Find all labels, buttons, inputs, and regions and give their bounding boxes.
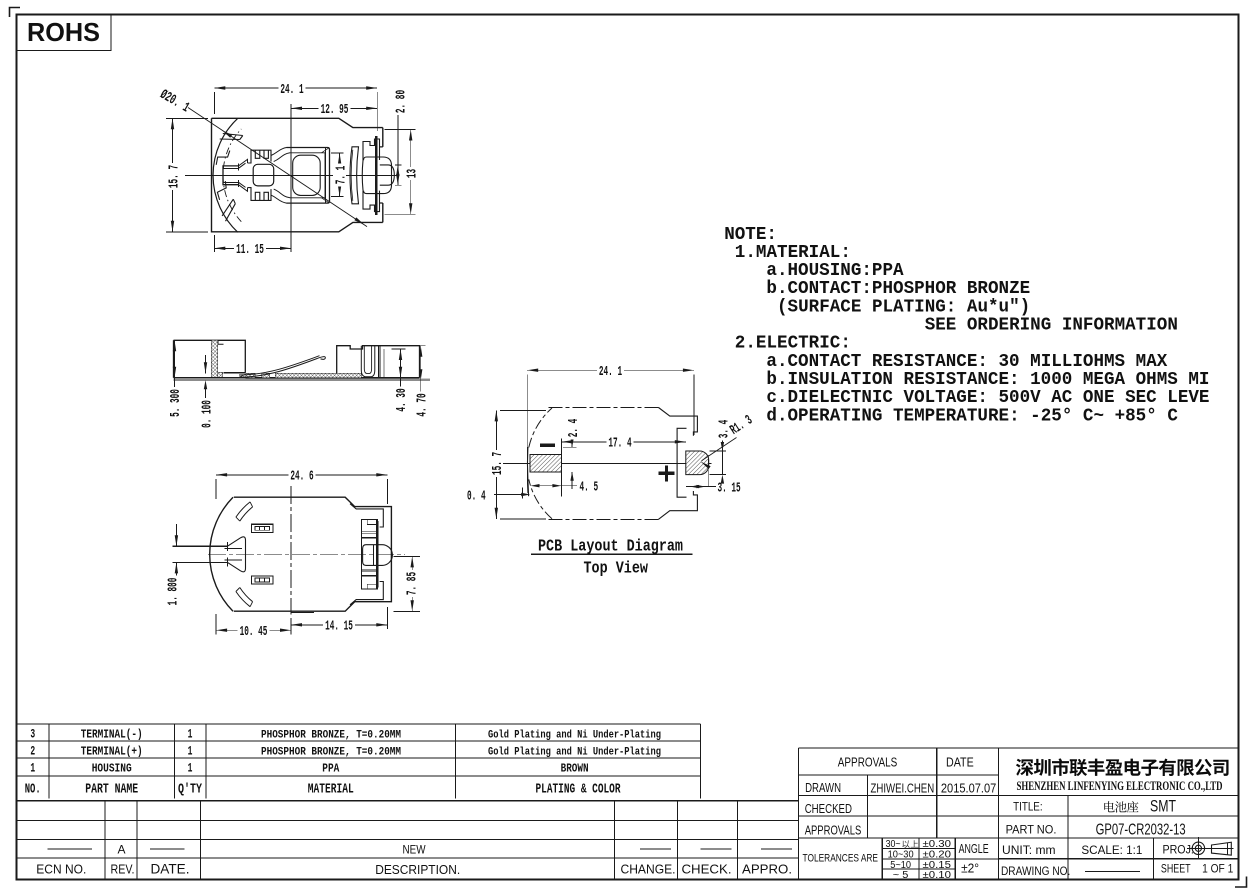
tolerance angle [959,841,989,875]
tolerance values [886,839,952,881]
svg-text:HOUSING: HOUSING [92,762,132,776]
pcb layout: left pad [530,455,562,472]
svg-text:b.CONTACT:PHOSPHOR BRONZE: b.CONTACT:PHOSPHOR BRONZE [766,279,1030,299]
svg-text:7. 1: 7. 1 [334,166,350,185]
pcb layout: minus symbol [540,443,555,447]
svg-text:4. 5: 4. 5 [580,480,599,496]
svg-text:4. 70: 4. 70 [415,393,431,416]
drawing no row [1001,862,1234,878]
notes text block [724,225,1209,426]
svg-text:2. 80: 2. 80 [393,90,409,113]
svg-text:±2°: ±2° [961,861,979,876]
svg-text:DRAWING NO.: DRAWING NO. [1001,864,1070,878]
bottom view: lower slot rectangle [251,576,273,584]
top view: negative clip center pocket [253,164,274,186]
top view: positive terminal bracket [363,139,380,212]
revision table row A [48,842,793,856]
bottom view: upper slot rectangle [251,524,273,532]
svg-text:2015.07.07: 2015.07.07 [941,780,996,795]
dimension 5.300 side view [168,340,184,419]
svg-text:12. 95: 12. 95 [321,102,349,118]
parts table row 3 terminal minus [30,727,661,742]
top view: negative clip nose tube [223,164,239,188]
svg-text:APPRO.: APPRO. [742,862,792,877]
side view: left housing block [174,340,246,378]
top view: negative clip waist curves [271,148,290,204]
svg-text:SMT: SMT [1150,796,1176,815]
svg-text:NO.: NO. [25,782,41,798]
parts table row 1 housing [30,761,588,776]
svg-text:13: 13 [405,169,421,178]
svg-text:TOLERANCES ARE: TOLERANCES ARE [803,852,879,864]
dimension 4.5 pcb layout [531,480,599,496]
svg-text:24. 1: 24. 1 [280,82,303,98]
unit scale proj row [1002,842,1194,857]
svg-text:14. 15: 14. 15 [325,619,353,635]
svg-text:CHECKED: CHECKED [805,801,852,816]
title block drawn row [805,780,996,796]
svg-text:1. 800: 1. 800 [165,578,181,606]
svg-text:SEE ORDERING INFORMATION: SEE ORDERING INFORMATION [925,316,1178,336]
side view: positive clip U section [361,346,384,377]
svg-text:1: 1 [30,761,35,776]
dimension 15.7 pcb layout [490,410,546,518]
dimension 0.100 side view [199,355,215,430]
svg-text:SHENZHEN LINFENYING ELECTRONIC: SHENZHEN LINFENYING ELECTRONIC CO.,LTD [1017,779,1223,793]
svg-text:PROJ:: PROJ: [1163,842,1194,856]
svg-text:2: 2 [30,744,35,759]
bottom view: positive terminal plate [362,520,378,590]
top view: negative clip lower prongs [248,188,272,201]
svg-text:3: 3 [30,727,35,742]
bottom view: bottom seam tab [291,612,314,614]
svg-text:1 OF 1: 1 OF 1 [1202,862,1233,876]
bottom view: center lines [208,486,405,615]
svg-text:2.ELECTRIC:: 2.ELECTRIC: [735,334,851,354]
svg-text:1.MATERIAL:: 1.MATERIAL: [735,243,851,263]
svg-text:b.INSULATION RESISTANCE: 1000: b.INSULATION RESISTANCE: 1000 MEGA OHMS … [766,370,1209,390]
svg-text:PPA: PPA [322,762,340,776]
pcb layout: plus symbol [659,465,675,481]
dimension 3.4 pcb layout [710,418,733,484]
svg-text:c.DIELECTNIC VOLTAGE: 500V AC: c.DIELECTNIC VOLTAGE: 500V AC ONE SEC LE… [766,388,1209,408]
title row [1013,796,1176,815]
pcb layout: right outline lower [659,491,698,519]
svg-text:CHECK.: CHECK. [682,862,732,877]
pcb layout: dash-dot body outline [529,408,659,520]
top view: negative clip trumpet flare [239,159,248,191]
company name chinese [1016,758,1229,776]
svg-text:(SURFACE PLATING: Au*u″): (SURFACE PLATING: Au*u″) [777,297,1030,317]
svg-text:APPROVALS: APPROVALS [805,822,862,837]
svg-text:d.OPERATING TEMPERATURE: -25°: d.OPERATING TEMPERATURE: -25° C~ +85° C [766,406,1178,426]
pcb layout: left pad box below [560,439,562,497]
dimension 24.1 pcb layout [527,364,694,493]
pcb layout caption [531,537,693,578]
parts table header row [25,782,621,798]
dimension R1.3 pcb layout [701,413,756,469]
svg-text:17. 4: 17. 4 [608,436,631,452]
svg-text:BROWN: BROWN [561,762,589,776]
svg-text:7. 85: 7. 85 [404,572,420,595]
svg-text:PART NO.: PART NO. [1006,822,1057,836]
top view: housing wall notch upper [216,134,243,165]
top view: housing wall notch lower [217,181,235,221]
bottom view: left curved slots [236,502,253,607]
svg-text:a.CONTACT RESISTANCE: 30 MILLI: a.CONTACT RESISTANCE: 30 MILLIOHMS MAX [766,352,1167,372]
ROHS logo box [17,15,112,51]
top view: body right edge [380,128,383,223]
svg-text:0. 100: 0. 100 [200,400,216,428]
svg-text:DATE.: DATE. [151,861,190,877]
svg-text:SCALE: 1:1: SCALE: 1:1 [1081,843,1142,857]
top view: negative clip upper prongs [248,150,272,163]
title block approvals row [805,822,862,837]
svg-text:PHOSPHOR BRONZE, T=0.20MM: PHOSPHOR BRONZE, T=0.20MM [261,730,401,742]
dimension 15.7 top view [166,118,208,232]
svg-text:A: A [118,842,126,856]
bottom view: body outline [210,497,392,611]
svg-text:1: 1 [188,761,193,776]
dimension 11.15 top view [214,235,291,258]
svg-text:24. 1: 24. 1 [599,364,622,380]
pcb layout: center line [497,462,712,464]
svg-text:10. 45: 10. 45 [240,624,268,640]
svg-text:GP07-CR2032-13: GP07-CR2032-13 [1096,822,1186,839]
projection symbol [1187,837,1233,859]
side view: bottom metal strip hatched [238,373,361,378]
bottom view: positive pin capsule [363,545,393,566]
pcb layout: right pad bracket [677,428,686,497]
svg-text:APPROVALS: APPROVALS [838,754,898,769]
side view: pcb base lines [174,378,431,380]
svg-text:ROHS: ROHS [27,17,100,47]
revision table grid [17,801,799,880]
dimension 24.1 top view [214,82,377,132]
svg-text:±0.30: ±0.30 [923,839,952,850]
side view: spring contact arm [239,356,325,378]
bottom view: right bracket [350,504,383,605]
svg-text:TERMINAL(+): TERMINAL(+) [81,745,143,759]
svg-text:DRAWN: DRAWN [805,780,841,795]
dimension 12.95 top view [291,102,377,118]
svg-text:ZHIWEI.CHEN: ZHIWEI.CHEN [871,780,935,795]
dimension 2.4 pcb layout [563,417,582,489]
dimension 2.80 top view [393,88,409,185]
svg-text:PART NAME: PART NAME [85,782,138,798]
svg-text:24. 6: 24. 6 [290,469,313,485]
top view: negative clip head [287,148,330,204]
svg-text:REV.: REV. [111,862,135,877]
svg-text:DATE: DATE [946,754,974,769]
title block approvals header [838,754,974,769]
svg-text:2. 4: 2. 4 [566,419,582,438]
part no row [1006,822,1186,839]
svg-text:PCB Layout Diagram: PCB Layout Diagram [538,537,683,556]
top view: positive terminal curved strip [350,147,359,204]
dimension 3.15 pcb layout [690,480,741,496]
svg-text:NOTE:: NOTE: [724,225,777,245]
svg-text:Top View: Top View [584,559,649,578]
svg-text:1: 1 [188,727,193,742]
top view: positive contact window [362,157,391,194]
pcb layout: right pad [686,451,709,487]
svg-text:Q'TY: Q'TY [178,782,202,798]
svg-text:4. 30: 4. 30 [394,388,410,411]
bottom view: left pin and funnel [173,537,246,572]
svg-text:15. 7: 15. 7 [490,452,506,475]
dimension 24.6 bottom view [216,468,387,504]
svg-text:±0.10: ±0.10 [923,870,952,881]
svg-text:CHANGE.: CHANGE. [621,862,676,877]
svg-text:PHOSPHOR BRONZE, T=0.20MM: PHOSPHOR BRONZE, T=0.20MM [261,747,401,759]
svg-text:MATERIAL: MATERIAL [308,782,354,798]
svg-text:30~: 30~ [886,839,901,850]
dimension 7.1 top view [331,153,350,197]
dimension 1.800 bottom view [165,524,181,607]
svg-text:ANGLE: ANGLE [959,841,989,856]
svg-text:~ 5: ~ 5 [893,870,909,881]
dimension 13 top view [385,130,421,215]
svg-text:ECN NO.: ECN NO. [36,862,86,877]
pcb layout: left solid edge [527,447,528,496]
top view: positive pin [380,165,395,185]
dimension 4.30 side view [392,349,410,414]
tolerances are label [803,852,879,864]
svg-text:a.HOUSING:PPA: a.HOUSING:PPA [766,261,903,281]
svg-text:3. 15: 3. 15 [718,480,741,496]
title block grid [799,748,1239,880]
dimension diameter 20.1 leader [157,87,367,227]
svg-text:NEW: NEW [403,842,427,856]
svg-text:Gold Plating and Ni Under-Plat: Gold Plating and Ni Under-Plating [488,747,661,759]
pcb layout: right outline upper [659,408,698,436]
dimension 14.15 bottom view [291,607,387,635]
top view: housing outer arc wall [213,118,241,232]
side view: left block hatch strip [211,340,223,378]
title block checked row [805,801,852,816]
svg-text:11. 15: 11. 15 [236,242,264,258]
company name english [1017,779,1223,793]
dimension 10.45 bottom view [216,614,291,640]
top view: center lines [185,104,399,249]
top view: positive terminal plate bar [375,136,378,215]
dimension 7.85 bottom view [394,556,421,611]
svg-text:Gold Plating and Ni Under-Plat: Gold Plating and Ni Under-Plating [488,730,661,742]
parts table grid [17,724,799,801]
dimension 4.70 side view [414,346,430,419]
dimension 17.4 pcb layout [562,435,686,451]
side view: right housing block [337,346,420,378]
svg-text:DESCRIPTION.: DESCRIPTION. [375,862,460,877]
svg-text:UNIT: mm: UNIT: mm [1002,843,1056,857]
svg-text:5. 300: 5. 300 [168,389,184,417]
svg-text:15. 7: 15. 7 [166,165,182,188]
svg-text:1: 1 [188,744,193,759]
svg-text:SHEET: SHEET [1161,862,1191,876]
svg-text:0. 4: 0. 4 [467,488,486,504]
dimension 0.4 pcb layout [467,488,530,505]
revision table labels [36,861,792,878]
svg-text:TITLE:: TITLE: [1013,800,1043,814]
parts table row 2 terminal plus [30,744,661,759]
tolerance sub-table [882,838,998,880]
top view: housing body outline [212,118,383,232]
svg-text:PLATING & COLOR: PLATING & COLOR [536,782,621,798]
svg-text:TERMINAL(-): TERMINAL(-) [81,728,143,742]
